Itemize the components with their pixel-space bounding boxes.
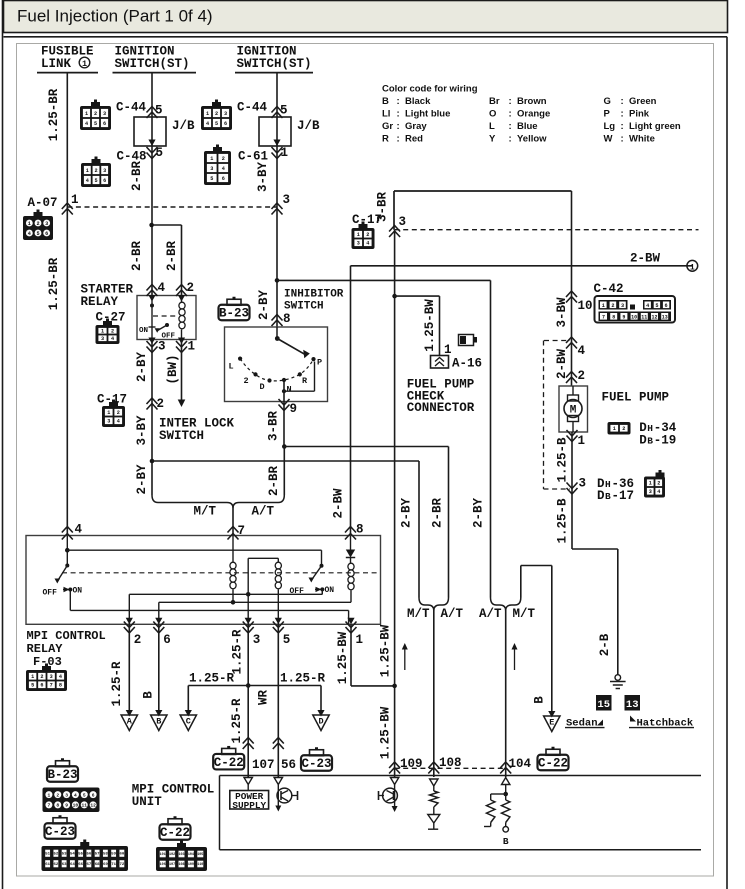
inhibitor P to N link xyxy=(314,362,316,392)
connector B-23 label bottom xyxy=(47,758,78,782)
svg-text:8: 8 xyxy=(283,312,291,326)
svg-text:Pink: Pink xyxy=(629,109,650,120)
pin 4 entry xyxy=(147,285,158,297)
svg-text:5: 5 xyxy=(36,231,39,237)
bracket M/T A/T group 2a xyxy=(419,598,449,611)
svg-text:Light blue: Light blue xyxy=(405,109,450,120)
svg-text:A/T: A/T xyxy=(441,607,464,621)
svg-text:H: H xyxy=(647,423,653,434)
pin 4 entry xyxy=(62,527,73,540)
wire 1.25-BW C-17 drop xyxy=(394,230,396,777)
svg-text:3: 3 xyxy=(158,340,166,354)
svg-text:1: 1 xyxy=(188,340,196,354)
svg-text:5: 5 xyxy=(210,176,213,182)
pin 5 exit xyxy=(275,618,282,625)
svg-text:3: 3 xyxy=(103,111,106,117)
svg-text:L: L xyxy=(489,121,495,132)
svg-text:Gr: Gr xyxy=(382,121,393,132)
svg-text:10: 10 xyxy=(73,803,79,809)
svg-text:5: 5 xyxy=(94,178,97,184)
svg-text:1: 1 xyxy=(357,232,360,238)
connector C-48 icon xyxy=(81,157,111,188)
svg-text:3: 3 xyxy=(45,221,48,227)
svg-text:2: 2 xyxy=(578,369,586,383)
svg-text:5: 5 xyxy=(156,146,164,160)
bracket A/T M/T group 2b xyxy=(491,598,521,611)
svg-text:57: 57 xyxy=(95,853,100,857)
relay coil 1 xyxy=(232,536,234,563)
relay bus coil1/coil3 to pin 6 xyxy=(159,601,351,603)
svg-text:(BW): (BW) xyxy=(166,354,180,384)
pin 1 exit xyxy=(347,618,354,625)
svg-text:4: 4 xyxy=(222,166,225,172)
svg-text:108: 108 xyxy=(178,863,184,867)
svg-text:4: 4 xyxy=(646,303,649,309)
svg-text:P: P xyxy=(604,109,611,120)
svg-text:3: 3 xyxy=(101,336,104,342)
svg-text:3: 3 xyxy=(579,477,587,491)
pin 8 entry xyxy=(345,527,356,540)
chevrons at 107 56 xyxy=(243,738,254,750)
svg-text:1: 1 xyxy=(71,193,79,207)
svg-text:105: 105 xyxy=(197,853,203,857)
svg-text:2: 2 xyxy=(134,633,142,647)
svg-text:4: 4 xyxy=(206,121,209,127)
svg-text:ON: ON xyxy=(139,327,148,335)
relay coil 3 xyxy=(350,558,352,564)
svg-text:M: M xyxy=(570,405,577,417)
svg-text:72: 72 xyxy=(119,863,124,867)
relay bus switch1 to pin 1 xyxy=(69,590,71,611)
svg-text:64: 64 xyxy=(70,863,75,867)
svg-text:D: D xyxy=(597,489,605,503)
relay mechanical dashed link xyxy=(62,572,377,574)
pin 6 exit xyxy=(155,618,162,625)
wire 1.25-BR fusible link feed xyxy=(66,73,68,536)
marker 15 sedan xyxy=(596,695,612,711)
relay internal bus to switch 2 xyxy=(66,536,68,566)
svg-text:C-22: C-22 xyxy=(538,757,568,771)
title bar xyxy=(4,1,728,33)
svg-text:6: 6 xyxy=(224,121,227,127)
transistor Q2 xyxy=(383,788,398,803)
svg-text:107: 107 xyxy=(169,863,175,867)
svg-text:B: B xyxy=(647,436,653,447)
svg-text:1: 1 xyxy=(206,111,209,117)
svg-text::: : xyxy=(397,133,400,144)
svg-text:3: 3 xyxy=(649,489,652,495)
svg-text:5: 5 xyxy=(283,633,291,647)
svg-text:5: 5 xyxy=(280,104,288,118)
svg-text:6: 6 xyxy=(103,178,106,184)
wire bracket 1 stem to relay pin 7 xyxy=(232,508,234,536)
svg-text:2: 2 xyxy=(36,221,39,227)
pin 2 entry xyxy=(176,285,187,297)
svg-text:60: 60 xyxy=(119,853,124,857)
svg-text:M/T: M/T xyxy=(513,607,536,621)
svg-text:66: 66 xyxy=(78,863,83,867)
wire 3-BR from C-17 top run xyxy=(394,190,572,192)
svg-text:E: E xyxy=(549,718,554,728)
svg-text:Black: Black xyxy=(405,96,431,107)
svg-text:2-BR: 2-BR xyxy=(130,241,144,272)
svg-text:O: O xyxy=(489,109,496,120)
svg-text:R: R xyxy=(382,133,389,144)
svg-text:1.25-R: 1.25-R xyxy=(110,661,124,707)
wire ignition switch ST right drop xyxy=(276,73,278,327)
svg-text:51: 51 xyxy=(45,853,50,857)
svg-text:2: 2 xyxy=(366,232,369,238)
connector C-44 icon left xyxy=(80,100,111,131)
svg-text:108: 108 xyxy=(439,756,462,770)
connector DH-34 icon xyxy=(608,422,631,435)
svg-text:1: 1 xyxy=(28,221,31,227)
svg-text:Light green: Light green xyxy=(629,121,681,132)
svg-text:B: B xyxy=(533,696,547,704)
svg-text:1.25-BR: 1.25-BR xyxy=(47,257,61,310)
svg-text:3: 3 xyxy=(253,633,261,647)
wire 1.25-R pin 2 to ground A xyxy=(128,624,130,715)
svg-text:3: 3 xyxy=(283,193,291,207)
svg-text:2-B: 2-B xyxy=(598,633,612,656)
box POWER SUPPLY xyxy=(230,791,269,810)
svg-text:White: White xyxy=(629,133,655,144)
svg-text:4: 4 xyxy=(111,336,114,342)
svg-text:ON: ON xyxy=(73,587,83,596)
chevron pin 3 xyxy=(567,483,578,495)
wire dashed C-22 row xyxy=(395,767,506,769)
connector A-16 xyxy=(431,356,449,369)
svg-text:1: 1 xyxy=(281,146,289,160)
svg-text:3-BR: 3-BR xyxy=(376,192,390,223)
svg-text:56: 56 xyxy=(281,758,296,772)
svg-text:M/T: M/T xyxy=(194,505,217,519)
svg-text:SWITCH(ST): SWITCH(ST) xyxy=(115,57,190,71)
svg-text:4: 4 xyxy=(86,178,89,184)
svg-text:Blue: Blue xyxy=(517,121,538,132)
terminal circle 1 xyxy=(687,260,698,271)
relay coil 2 loop xyxy=(321,590,323,595)
svg-text:101: 101 xyxy=(160,853,166,857)
connector C-61 icon xyxy=(204,145,231,186)
svg-text:2: 2 xyxy=(111,329,114,335)
resistor R2 xyxy=(491,793,506,795)
svg-text::: : xyxy=(621,109,624,120)
wire ignition switch ST left drop xyxy=(151,73,153,296)
svg-text:Fuel Injection (Part 1 0f 4): Fuel Injection (Part 1 0f 4) xyxy=(17,7,213,26)
pin 108 entry xyxy=(428,762,439,774)
svg-text:12: 12 xyxy=(651,314,657,320)
wire dashed A-07 link xyxy=(62,203,73,215)
svg-text:C-44: C-44 xyxy=(237,101,268,115)
svg-text:-19: -19 xyxy=(654,434,677,448)
relay switch 1 xyxy=(65,564,69,568)
svg-text:7: 7 xyxy=(238,524,246,538)
svg-text:12: 12 xyxy=(90,803,96,809)
svg-text:B: B xyxy=(382,96,389,107)
junction connector C-44 chevron J/B top pin 5 xyxy=(147,107,158,119)
svg-text::: : xyxy=(509,96,512,107)
svg-text:3-BR: 3-BR xyxy=(267,411,281,442)
connector C-23 icon large xyxy=(42,840,129,872)
svg-text:2: 2 xyxy=(657,481,660,487)
svg-text:SWITCH: SWITCH xyxy=(284,301,324,313)
starter relay switch xyxy=(150,304,154,308)
wire 1.25-B fuel pump return xyxy=(571,432,573,549)
wire branch 2-BR to starter relay xyxy=(149,223,154,228)
svg-text:2-BW: 2-BW xyxy=(555,349,569,380)
svg-text:4: 4 xyxy=(578,344,586,358)
svg-text:2-BR: 2-BR xyxy=(130,161,144,192)
svg-text:1: 1 xyxy=(86,168,89,174)
svg-text:62: 62 xyxy=(53,863,58,867)
pin 1 exit xyxy=(178,338,185,345)
svg-text:6: 6 xyxy=(222,176,225,182)
svg-text:53: 53 xyxy=(62,853,67,857)
wire B pin 6 to ground B xyxy=(158,624,160,715)
svg-text:4: 4 xyxy=(74,792,77,798)
connector C-23 label bottom xyxy=(45,815,76,839)
connector C-17 chevron pin 2 xyxy=(147,398,158,410)
chevron pin 2 xyxy=(566,372,577,384)
wire 1.25-R pin 3 to MPI 107 xyxy=(247,624,249,777)
svg-text:5: 5 xyxy=(155,104,163,118)
svg-text:2-BR: 2-BR xyxy=(267,466,281,497)
svg-text:4: 4 xyxy=(59,674,62,680)
svg-text:3-BY: 3-BY xyxy=(256,162,270,193)
svg-text:Br: Br xyxy=(489,96,500,107)
connector C-42 icon xyxy=(595,296,676,323)
svg-text:1: 1 xyxy=(107,410,110,416)
svg-text:4: 4 xyxy=(28,231,31,237)
svg-text:A/T: A/T xyxy=(479,607,502,621)
svg-text:4: 4 xyxy=(158,281,166,295)
svg-text:C-23: C-23 xyxy=(301,757,331,771)
direction arrow right xyxy=(514,645,516,670)
svg-text:Y: Y xyxy=(489,133,496,144)
svg-text:110: 110 xyxy=(197,863,203,867)
svg-text:1.25-BR: 1.25-BR xyxy=(47,88,61,141)
svg-text:71: 71 xyxy=(111,863,116,867)
svg-text:B-23: B-23 xyxy=(219,307,249,321)
svg-text:3: 3 xyxy=(107,419,110,425)
wire 2-B to ground xyxy=(572,548,618,550)
resistor R3 xyxy=(505,794,507,800)
svg-text:6: 6 xyxy=(665,303,668,309)
svg-text:C-23: C-23 xyxy=(45,825,75,839)
svg-text:68: 68 xyxy=(95,863,100,867)
svg-text:59: 59 xyxy=(111,853,116,857)
svg-text:A-16: A-16 xyxy=(452,357,482,371)
svg-text:2: 2 xyxy=(222,156,225,162)
unit MPI CONTROL UNIT box xyxy=(220,775,702,777)
svg-text:3: 3 xyxy=(65,792,68,798)
svg-text:8: 8 xyxy=(56,803,59,809)
inhibitor rotor contacts xyxy=(276,327,278,339)
svg-text:8: 8 xyxy=(356,523,364,537)
svg-text:63: 63 xyxy=(62,863,67,867)
svg-text:3: 3 xyxy=(357,241,360,247)
svg-text:3-BY: 3-BY xyxy=(135,415,149,446)
svg-text:1.25-BW: 1.25-BW xyxy=(379,624,393,677)
svg-text:OFF: OFF xyxy=(290,587,305,596)
svg-text:7: 7 xyxy=(48,803,51,809)
svg-text:MPI CONTROL: MPI CONTROL xyxy=(27,629,106,643)
svg-text:1.25-BW: 1.25-BW xyxy=(423,299,437,352)
svg-text:C: C xyxy=(186,717,191,727)
svg-text:1: 1 xyxy=(356,633,364,647)
junction box J/B left xyxy=(134,117,166,146)
svg-text:7: 7 xyxy=(602,314,605,320)
svg-text:LINK: LINK xyxy=(41,57,72,71)
svg-text:106: 106 xyxy=(160,863,166,867)
svg-text:1: 1 xyxy=(602,303,605,309)
svg-text:69: 69 xyxy=(103,863,108,867)
svg-text:109: 109 xyxy=(188,863,194,867)
svg-text:SUPPLY: SUPPLY xyxy=(232,800,266,811)
connector C-22 icon large xyxy=(156,841,207,872)
relay MPI CONTROL RELAY box xyxy=(26,536,381,625)
svg-text:RELAY: RELAY xyxy=(27,642,64,656)
svg-text:D: D xyxy=(318,717,323,727)
wire 2-BY starter to interlock xyxy=(151,340,153,496)
resistor R1 xyxy=(430,791,438,807)
svg-text:2-BY: 2-BY xyxy=(472,498,486,529)
svg-text:D: D xyxy=(639,434,647,448)
svg-text:7: 7 xyxy=(50,683,53,689)
svg-text:4: 4 xyxy=(657,489,660,495)
svg-text:8: 8 xyxy=(59,683,62,689)
svg-text:13: 13 xyxy=(626,699,639,711)
svg-text:2-BY: 2-BY xyxy=(257,290,271,321)
svg-text:5: 5 xyxy=(655,303,658,309)
chevron pin 4 xyxy=(566,337,577,349)
svg-text:W: W xyxy=(604,133,613,144)
pin 56 entry xyxy=(274,778,282,785)
svg-text:6: 6 xyxy=(40,683,43,689)
pin 107 entry xyxy=(244,778,252,785)
svg-text:1.25-R: 1.25-R xyxy=(189,672,235,686)
wire 3-BW fuel pump drop xyxy=(571,191,573,386)
svg-text:9: 9 xyxy=(65,803,68,809)
svg-text:6: 6 xyxy=(163,633,171,647)
svg-text:Lg: Lg xyxy=(604,121,616,132)
connector C-61 chevron pin 1 xyxy=(272,147,283,159)
svg-text:1.25-B: 1.25-B xyxy=(556,437,570,483)
svg-text:61: 61 xyxy=(45,863,50,867)
svg-text:9: 9 xyxy=(290,402,298,416)
svg-text:2-BW: 2-BW xyxy=(332,488,346,519)
svg-text:104: 104 xyxy=(509,757,532,771)
wire WR pin 5 to MPI 56 xyxy=(277,624,279,777)
svg-text:6: 6 xyxy=(103,121,106,127)
svg-text:2: 2 xyxy=(94,111,97,117)
svg-text:INHIBITOR: INHIBITOR xyxy=(284,289,344,301)
svg-text:2-BR: 2-BR xyxy=(165,241,179,272)
svg-text::: : xyxy=(397,121,400,132)
svg-text:2: 2 xyxy=(56,792,59,798)
wire 3-BR inhibitor N output pin 9 xyxy=(283,380,285,447)
svg-text:109: 109 xyxy=(400,757,423,771)
svg-text:2: 2 xyxy=(611,303,614,309)
motor FUEL PUMP xyxy=(559,386,588,432)
connector DH-36 icon xyxy=(644,470,665,498)
svg-text:1.25-R: 1.25-R xyxy=(280,672,326,686)
diagram frame xyxy=(4,36,728,38)
svg-text:Green: Green xyxy=(629,96,657,107)
ground triangle R1 xyxy=(428,815,440,824)
svg-text:1.25-BW: 1.25-BW xyxy=(336,631,350,684)
svg-text:-17: -17 xyxy=(612,489,635,503)
svg-text:2: 2 xyxy=(215,111,218,117)
svg-text::: : xyxy=(621,96,624,107)
svg-text:SWITCH(ST): SWITCH(ST) xyxy=(237,57,312,71)
svg-text:56: 56 xyxy=(86,853,91,857)
svg-text:G: G xyxy=(604,96,611,107)
svg-text:2-BW: 2-BW xyxy=(630,252,661,266)
relay bus switch2 to pin 2 xyxy=(129,593,248,595)
starter relay coil xyxy=(179,302,185,309)
connector C-44 chevron J/B right pin 5 xyxy=(272,107,283,119)
junction ignition to inhibitor / A-T feed xyxy=(275,278,280,283)
svg-text:P: P xyxy=(317,358,322,368)
svg-text:103: 103 xyxy=(178,853,184,857)
svg-text::: : xyxy=(621,133,624,144)
bracket M/T A/T group 1 xyxy=(152,495,284,508)
svg-text:2: 2 xyxy=(40,674,43,680)
svg-text:B: B xyxy=(156,717,161,727)
junction 1.25-BW to fuel pump check xyxy=(392,294,397,299)
svg-text:104: 104 xyxy=(188,853,194,857)
wire stem to MPI 104 xyxy=(505,610,507,778)
page left border xyxy=(2,0,4,889)
wire M/T A/T tie lines left xyxy=(150,459,155,464)
svg-text:15: 15 xyxy=(597,699,610,711)
ground symbol xyxy=(615,675,621,681)
svg-text:ON: ON xyxy=(325,586,335,595)
svg-text:5: 5 xyxy=(83,792,86,798)
svg-text:10: 10 xyxy=(631,314,637,320)
marker 13 hatchback xyxy=(625,695,641,711)
svg-text:L: L xyxy=(229,362,234,372)
svg-text:1: 1 xyxy=(48,792,51,798)
svg-text:B: B xyxy=(605,491,611,502)
connector C-48 chevron pin 5 xyxy=(147,147,158,159)
wire 1.25-BW pin 1 to MPI 109 xyxy=(350,624,352,686)
svg-text:1: 1 xyxy=(31,674,34,680)
svg-text:8: 8 xyxy=(612,314,615,320)
connector C-27 icon xyxy=(96,319,120,345)
dashed in-tank boundary xyxy=(543,341,545,490)
svg-text:B: B xyxy=(503,836,509,847)
svg-text:OFF: OFF xyxy=(43,589,58,598)
svg-text:WR: WR xyxy=(257,690,271,706)
pin 3 exit xyxy=(148,338,155,345)
svg-text:5: 5 xyxy=(94,121,97,127)
wire (BW) to inter lock switch xyxy=(181,340,183,401)
connector A-16 icon xyxy=(459,335,474,346)
svg-text:Color code for wiring: Color code for wiring xyxy=(382,84,478,95)
connector A-07 icon xyxy=(23,210,53,241)
svg-text:4: 4 xyxy=(366,241,369,247)
pin 2 exit xyxy=(126,618,133,625)
svg-text:B: B xyxy=(142,691,156,699)
connector F-03 icon xyxy=(26,664,67,692)
svg-text:B-23: B-23 xyxy=(47,768,77,782)
connector B-23 icon 12pin xyxy=(43,788,100,813)
svg-text:FUEL PUMP: FUEL PUMP xyxy=(602,391,670,405)
svg-text:107: 107 xyxy=(252,758,275,772)
